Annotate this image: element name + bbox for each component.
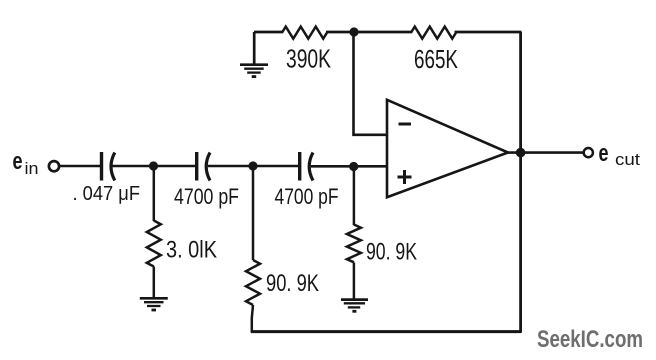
capacitor C2 4700pF bbox=[197, 152, 210, 181]
node A (junction dot) bbox=[149, 161, 158, 170]
input terminal e_in bbox=[49, 161, 59, 171]
label e_cut bbox=[599, 140, 641, 169]
ground under R3 bbox=[341, 300, 368, 312]
resistor R4 390K bbox=[282, 27, 327, 39]
node C (junction dot) bbox=[349, 162, 358, 171]
op-amp plus sign bbox=[398, 170, 412, 184]
svg-text:4700 pF: 4700 pF bbox=[174, 184, 239, 209]
svg-text:e: e bbox=[13, 148, 23, 175]
svg-text:SeekIC.com: SeekIC.com bbox=[537, 326, 643, 353]
output terminal e_out bbox=[584, 148, 593, 157]
svg-text:cut: cut bbox=[615, 150, 640, 169]
capacitor C3 4700pF bbox=[300, 152, 313, 181]
wire: node B down to R2 bbox=[252, 166, 255, 260]
wire: R2 to bottom feedback wire bbox=[252, 305, 253, 333]
op-amp minus sign bbox=[399, 123, 412, 126]
svg-text:4700 pF: 4700 pF bbox=[275, 184, 339, 209]
wire: top feedback wire right segment bbox=[455, 31, 522, 34]
ground under R1 bbox=[140, 298, 168, 310]
svg-text:e: e bbox=[599, 140, 609, 167]
svg-text:3. 0lK: 3. 0lK bbox=[166, 237, 217, 264]
resistor R1 3.01K bbox=[147, 221, 161, 267]
svg-text:in: in bbox=[25, 159, 39, 178]
wire: node C down to R3 bbox=[353, 167, 356, 226]
wire: inverting input branch (top node down and into op-amp) bbox=[354, 33, 388, 135]
resistor R2 90.9K (left) bbox=[246, 260, 260, 305]
ground at 390K bbox=[240, 65, 268, 77]
wire: bottom feedback wire bbox=[251, 330, 521, 333]
node E (output junction dot) bbox=[516, 148, 526, 158]
resistor R3 90.9K (right) bbox=[347, 225, 361, 263]
wire: R1 to ground bbox=[153, 267, 156, 299]
svg-text:90. 9K: 90. 9K bbox=[266, 270, 319, 297]
wire: 390K left end down to ground bbox=[253, 32, 256, 65]
svg-text:90. 9K: 90. 9K bbox=[366, 239, 417, 266]
svg-text:665K: 665K bbox=[414, 44, 458, 74]
wire: R3 to ground bbox=[353, 263, 356, 301]
wire: top feedback wire middle segment bbox=[326, 31, 412, 34]
node B (junction dot) bbox=[248, 161, 257, 170]
svg-text:. 047 μF: . 047 μF bbox=[73, 182, 141, 205]
wire: C1 to node A bbox=[113, 165, 197, 168]
label e_in bbox=[13, 148, 39, 178]
wire: C3 to op-amp noninverting input bbox=[311, 165, 387, 168]
capacitor C1 .047uF bbox=[102, 152, 115, 181]
resistor R5 665K bbox=[411, 27, 456, 39]
node D (top junction dot) bbox=[349, 27, 358, 36]
wire: op-amp output to output terminal bbox=[505, 151, 584, 154]
wire: node A down to R1 bbox=[153, 166, 156, 221]
svg-text:390K: 390K bbox=[286, 44, 331, 74]
wire: input terminal to C1 bbox=[60, 165, 101, 168]
wire: feedback vertical (output node up to 665K and down to bottom wire) bbox=[519, 32, 522, 333]
wire: C2 to node B bbox=[208, 165, 299, 168]
wire: top feedback wire left segment bbox=[254, 31, 283, 34]
op-amp U1 bbox=[387, 100, 508, 197]
